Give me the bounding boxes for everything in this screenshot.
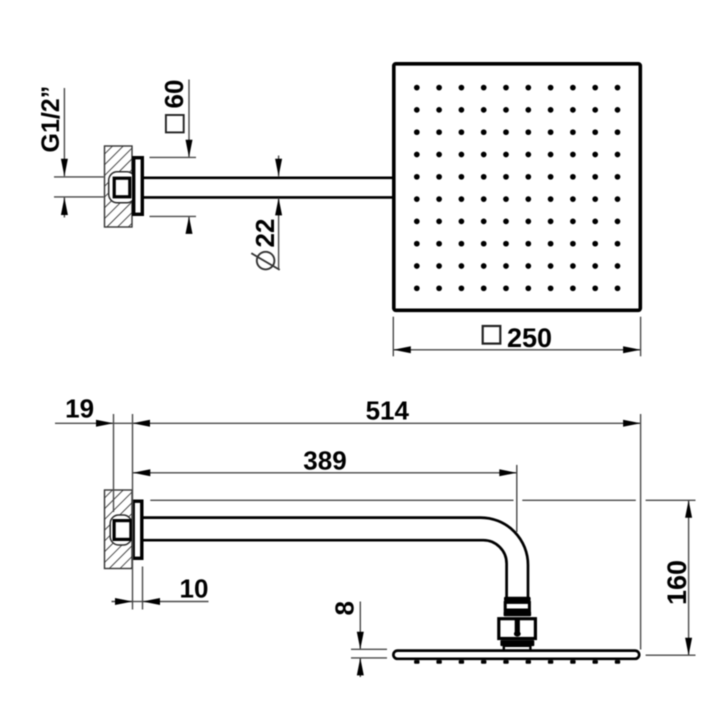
svg-text:389: 389 [303, 446, 346, 476]
svg-text:19: 19 [65, 393, 94, 423]
svg-text:G1/2”: G1/2” [37, 86, 65, 153]
svg-text:22: 22 [250, 219, 280, 248]
svg-text:160: 160 [662, 560, 692, 605]
svg-text:514: 514 [366, 396, 410, 426]
svg-text:8: 8 [330, 601, 360, 615]
svg-text:250: 250 [507, 323, 552, 353]
svg-text:60: 60 [159, 80, 189, 109]
svg-text:10: 10 [180, 574, 209, 604]
